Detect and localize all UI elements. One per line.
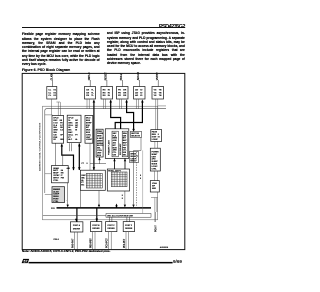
svg-text:9/69: 9/69 xyxy=(173,259,182,264)
